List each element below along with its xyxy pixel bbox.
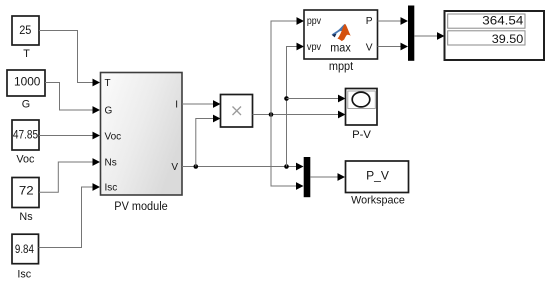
wire G to PV module	[45, 83, 100, 114]
constant block Voc value 47.85	[12, 120, 39, 150]
wire T to PV module	[39, 31, 100, 87]
svg-text:Isc: Isc	[105, 183, 118, 194]
To Workspace block P_V	[346, 161, 409, 193]
svg-text:V: V	[171, 162, 178, 173]
svg-text:72: 72	[19, 184, 34, 198]
P-V XY graph block	[346, 89, 378, 126]
wire mux1 to display	[414, 32, 444, 40]
product block multiply	[221, 95, 253, 128]
wire P branch up to mppt ppv	[271, 17, 304, 114]
mppt MATLAB function block	[304, 10, 378, 59]
wire V branch to product input 2	[196, 115, 221, 167]
svg-text:1000: 1000	[14, 74, 41, 88]
PV module subsystem block	[101, 73, 183, 196]
svg-text:I: I	[175, 100, 178, 111]
wire V from PV module to mux2	[182, 163, 304, 171]
svg-text:T: T	[105, 78, 111, 89]
wire Ns to PV module	[39, 158, 100, 192]
svg-text:Workspace: Workspace	[351, 194, 405, 206]
display block	[445, 11, 545, 60]
svg-text:vpv: vpv	[307, 42, 321, 53]
svg-text:47.85: 47.85	[13, 128, 38, 142]
svg-text:max: max	[330, 43, 351, 55]
constant block Isc value 9.84	[12, 234, 39, 264]
MATLAB logo icon	[332, 24, 351, 41]
wire P branch down to mux2 bottom input	[271, 115, 304, 190]
svg-text:PV module: PV module	[114, 199, 168, 213]
mux1 bar	[408, 6, 414, 61]
svg-text:P_V: P_V	[366, 169, 390, 183]
junction node V at P-V branch	[284, 96, 289, 101]
wire V from mppt to mux1	[378, 43, 409, 51]
mux2 bar	[304, 157, 311, 197]
junction node P	[269, 112, 274, 117]
wire Voc to PV module	[39, 132, 100, 140]
svg-text:G: G	[105, 106, 113, 117]
svg-text:G: G	[22, 98, 30, 110]
constant block Ns value 72	[12, 178, 39, 208]
svg-text:Ns: Ns	[19, 211, 33, 223]
svg-text:P: P	[366, 16, 373, 27]
wire V branch up to mppt vpv	[287, 43, 305, 167]
svg-text:Voc: Voc	[105, 132, 122, 143]
wire I from PV module to product	[182, 100, 221, 108]
svg-text:ppv: ppv	[307, 16, 321, 27]
wire mux2 to workspace	[310, 173, 345, 181]
svg-text:9.84: 9.84	[15, 242, 34, 256]
junction node V at mux2	[284, 164, 289, 169]
wire P from mppt to mux1	[378, 17, 409, 25]
svg-text:mppt: mppt	[329, 59, 354, 73]
svg-text:364.54: 364.54	[482, 14, 523, 28]
svg-text:Ns: Ns	[105, 158, 117, 169]
svg-text:V: V	[366, 43, 373, 54]
svg-text:39.50: 39.50	[492, 32, 524, 46]
wire Isc to PV module	[39, 183, 101, 247]
junction node V at product branch	[194, 164, 199, 169]
wire P from product to P-V bottom input	[253, 111, 346, 119]
svg-text:25: 25	[19, 23, 31, 37]
svg-text:P-V: P-V	[352, 129, 371, 141]
svg-text:T: T	[23, 48, 30, 60]
svg-text:Voc: Voc	[16, 154, 35, 166]
svg-text:Isc: Isc	[17, 268, 31, 280]
constant block G value 1000	[7, 70, 45, 96]
wire V branch to P-V top input	[287, 95, 346, 103]
constant block T value 25	[12, 16, 39, 45]
